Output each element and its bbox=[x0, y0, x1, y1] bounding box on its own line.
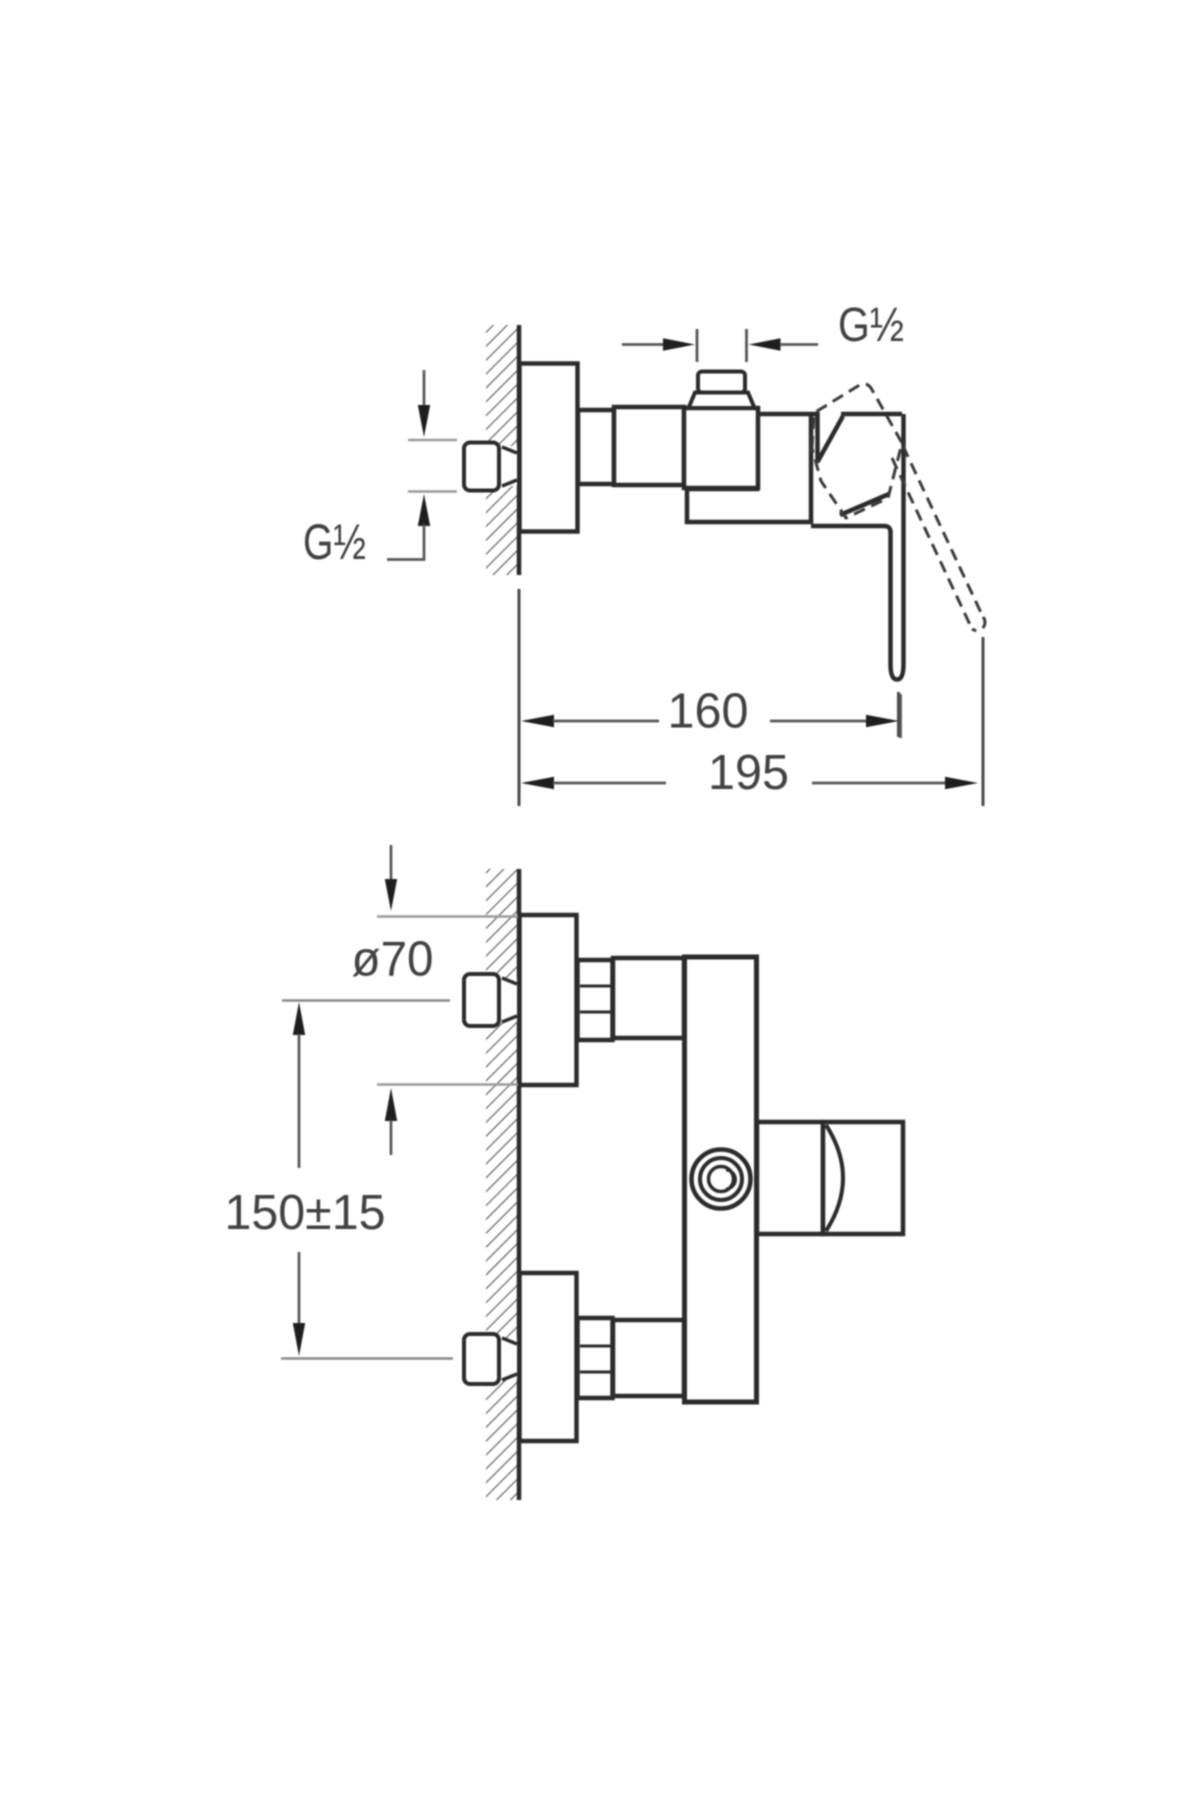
upper pipe stub blanking bbox=[494, 978, 517, 1022]
svg-text:195: 195 bbox=[708, 745, 789, 800]
lever curved face arc bbox=[826, 1125, 843, 1231]
dashed lever extension line bbox=[982, 637, 985, 806]
lower pipe chamfer bottom bbox=[502, 1374, 517, 1380]
escutcheon bottom up arrow bbox=[385, 1088, 397, 1121]
upper port centre leader bbox=[282, 999, 450, 1001]
connector segment 1 (top view) bbox=[578, 410, 614, 484]
lower wall pipe stub (bottom view) bbox=[464, 1334, 499, 1384]
dimension 195 line left bbox=[553, 782, 666, 785]
dashed handle head (raised position) bbox=[812, 384, 902, 518]
screw middle circle bbox=[700, 1158, 742, 1200]
mixer body (bottom view) bbox=[685, 957, 757, 1402]
lower pipe chamfer top bbox=[502, 1338, 517, 1344]
dimension 150 down arrow bbox=[293, 1323, 305, 1356]
left small dimension up arrow bbox=[418, 494, 430, 526]
upper connector nut (bottom view) bbox=[578, 960, 613, 1040]
escutcheon flange lower (bottom view) bbox=[520, 1273, 577, 1441]
dimension 150 line lower bbox=[298, 1252, 301, 1324]
top width dimension line left segment bbox=[622, 343, 664, 346]
wall pipe stub (G1/2 inlet, top view) bbox=[464, 443, 499, 491]
valve housing (top view) bbox=[684, 408, 758, 488]
handle head bottom diagonal bbox=[840, 494, 889, 515]
lower connector segment 2 (bottom view) bbox=[613, 1320, 684, 1396]
solid lever extension line bbox=[897, 692, 900, 737]
dimension 160 line left bbox=[553, 720, 659, 723]
dimension 160 line right bbox=[770, 720, 867, 723]
wall offset arrow upper line bbox=[390, 845, 393, 881]
top width tick left bbox=[696, 329, 699, 362]
lower nut flat line 1 bbox=[580, 1345, 612, 1348]
upper wall pipe stub (bottom view) bbox=[464, 974, 499, 1026]
lever (solid, vertical position) bbox=[891, 414, 904, 680]
mixer body (top view) bbox=[687, 414, 818, 522]
outlet collar (top view) bbox=[689, 393, 755, 409]
pipe stub chamfer bottom bbox=[502, 480, 517, 486]
G1/2 leader (left) bbox=[387, 558, 425, 561]
left small dimension tick upper bbox=[408, 439, 457, 441]
upper pipe chamfer top bbox=[502, 978, 517, 984]
left small dimension upper line bbox=[423, 370, 426, 408]
pipe stub chamfer top bbox=[502, 447, 517, 453]
upper nut flat line 1 bbox=[580, 985, 612, 988]
handle base block (bottom view) bbox=[757, 1122, 823, 1234]
dimension 150 line upper bbox=[298, 1034, 301, 1168]
left small dimension down arrow bbox=[418, 405, 430, 437]
dimension 195 right arrow bbox=[945, 777, 978, 789]
wall extension line (below top view) bbox=[518, 589, 521, 806]
escutcheon bottom arrow tail bbox=[390, 1120, 393, 1155]
top width tick right bbox=[745, 329, 748, 362]
dimension 160 right arrow bbox=[866, 715, 899, 727]
left small dimension lower line bbox=[423, 524, 426, 560]
top width arrow left-pointing bbox=[749, 338, 781, 350]
dimension 160 right tick bbox=[899, 694, 902, 738]
upper pipe chamfer bottom bbox=[502, 1016, 517, 1022]
lower connector nut (bottom view) bbox=[578, 1318, 613, 1398]
upper nut flat line 2 bbox=[580, 1011, 612, 1014]
dashed lever tip arc bbox=[972, 617, 985, 631]
top width dimension line right segment bbox=[780, 343, 818, 346]
wall face line (top view) bbox=[517, 325, 522, 575]
handle head top edge bbox=[841, 412, 902, 417]
top width arrow right-pointing bbox=[663, 338, 695, 350]
dimension 195 left arrow bbox=[521, 777, 554, 789]
dashed lever (raised position) left line bbox=[892, 458, 972, 629]
screw slot arc bbox=[726, 1170, 736, 1189]
dimension 150 up arrow bbox=[293, 1002, 305, 1035]
wall offset down arrow bbox=[385, 879, 397, 911]
wall hatching (bottom view) bbox=[486, 869, 519, 1500]
upper connector segment 2 (bottom view) bbox=[613, 958, 684, 1038]
handle neck bottom edge bbox=[811, 526, 891, 532]
wall face line (bottom view) bbox=[517, 869, 522, 1500]
dimension 160 left arrow bbox=[521, 715, 554, 727]
lower nut flat line 2 bbox=[580, 1371, 612, 1374]
lower pipe stub blanking bbox=[494, 1338, 517, 1380]
wall hatching (top view) bbox=[486, 325, 518, 575]
escutcheon flange upper (bottom view) bbox=[520, 915, 577, 1085]
svg-text:G½: G½ bbox=[838, 299, 904, 352]
handle head left vertical bbox=[815, 412, 820, 463]
screw outer circle bbox=[692, 1150, 751, 1209]
left small dimension tick lower bbox=[408, 490, 457, 492]
svg-text:ø70: ø70 bbox=[352, 932, 434, 987]
escutcheon flange (top view) bbox=[520, 364, 578, 532]
escutcheon top extension line bbox=[377, 915, 518, 917]
lower port centre leader bbox=[281, 1357, 453, 1359]
outlet cap G1/2 (top view) bbox=[698, 372, 745, 393]
lever cross-section (bottom view) bbox=[823, 1122, 903, 1234]
svg-text:160: 160 bbox=[668, 684, 749, 739]
dashed lever (raised position) right line bbox=[903, 446, 983, 617]
screw inner circle bbox=[709, 1167, 734, 1192]
handle head left slant bbox=[818, 416, 843, 461]
svg-text:150±15: 150±15 bbox=[225, 1185, 386, 1240]
escutcheon bottom extension line bbox=[377, 1083, 518, 1085]
svg-text:G½: G½ bbox=[303, 514, 366, 570]
wall pipe stub blanking bbox=[494, 446, 517, 486]
connector segment 2 (top view) bbox=[614, 407, 684, 485]
dimension 195 line right bbox=[812, 782, 945, 785]
